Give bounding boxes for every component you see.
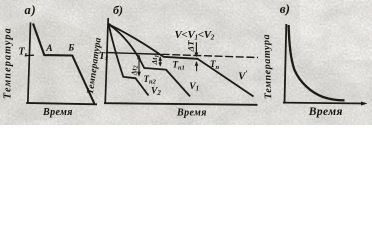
dT1 arrow (159, 57, 161, 66)
x-axis panel a (26, 103, 97, 104)
svg-text:в): в) (280, 1, 290, 16)
paper mottle left (0, 20, 110, 120)
Ts dashed line (151, 54, 258, 58)
exponential cooling curve panel v (289, 25, 345, 100)
svg-text:ΔТ: ΔТ (186, 40, 196, 53)
x-axis arrowhead panel v (361, 102, 368, 106)
Ts tick panel a (25, 54, 34, 56)
svg-text:б): б) (113, 3, 123, 17)
paper background (0, 0, 372, 125)
svg-text:Время: Время (308, 106, 343, 118)
svg-text:Температура: Температура (3, 27, 14, 99)
paper mottle right-bottom (240, 65, 360, 125)
curve V1 (middle cooling) (109, 24, 190, 96)
y-axis panel v (285, 24, 287, 103)
y-axis panel b (105, 18, 108, 104)
x-axis panel v (283, 102, 365, 105)
svg-text:а): а) (25, 3, 37, 17)
svg-text:Б: Б (67, 44, 74, 54)
white top right (300, 0, 372, 60)
svg-text:А: А (45, 44, 52, 54)
fan origin node (108, 23, 111, 26)
svg-text:Температура: Температура (261, 34, 274, 100)
Ts solid line (106, 53, 151, 55)
paper mottle middle (85, 35, 245, 125)
scan grain overlay (0, 0, 372, 125)
curve V slowest (109, 24, 254, 96)
x-axis panel b (104, 103, 258, 105)
svg-text:Время: Время (176, 108, 207, 119)
cooling curve panel a (33, 24, 94, 104)
dT lower arrow (196, 63, 198, 72)
y-axis panel a (28, 23, 31, 104)
curve V2 (fastest cooling) (109, 24, 149, 95)
scan mottle overlay (0, 0, 372, 125)
dT upper arrow (195, 42, 197, 55)
svg-text:Время: Время (42, 107, 73, 118)
dT2 arrow (138, 55, 140, 76)
